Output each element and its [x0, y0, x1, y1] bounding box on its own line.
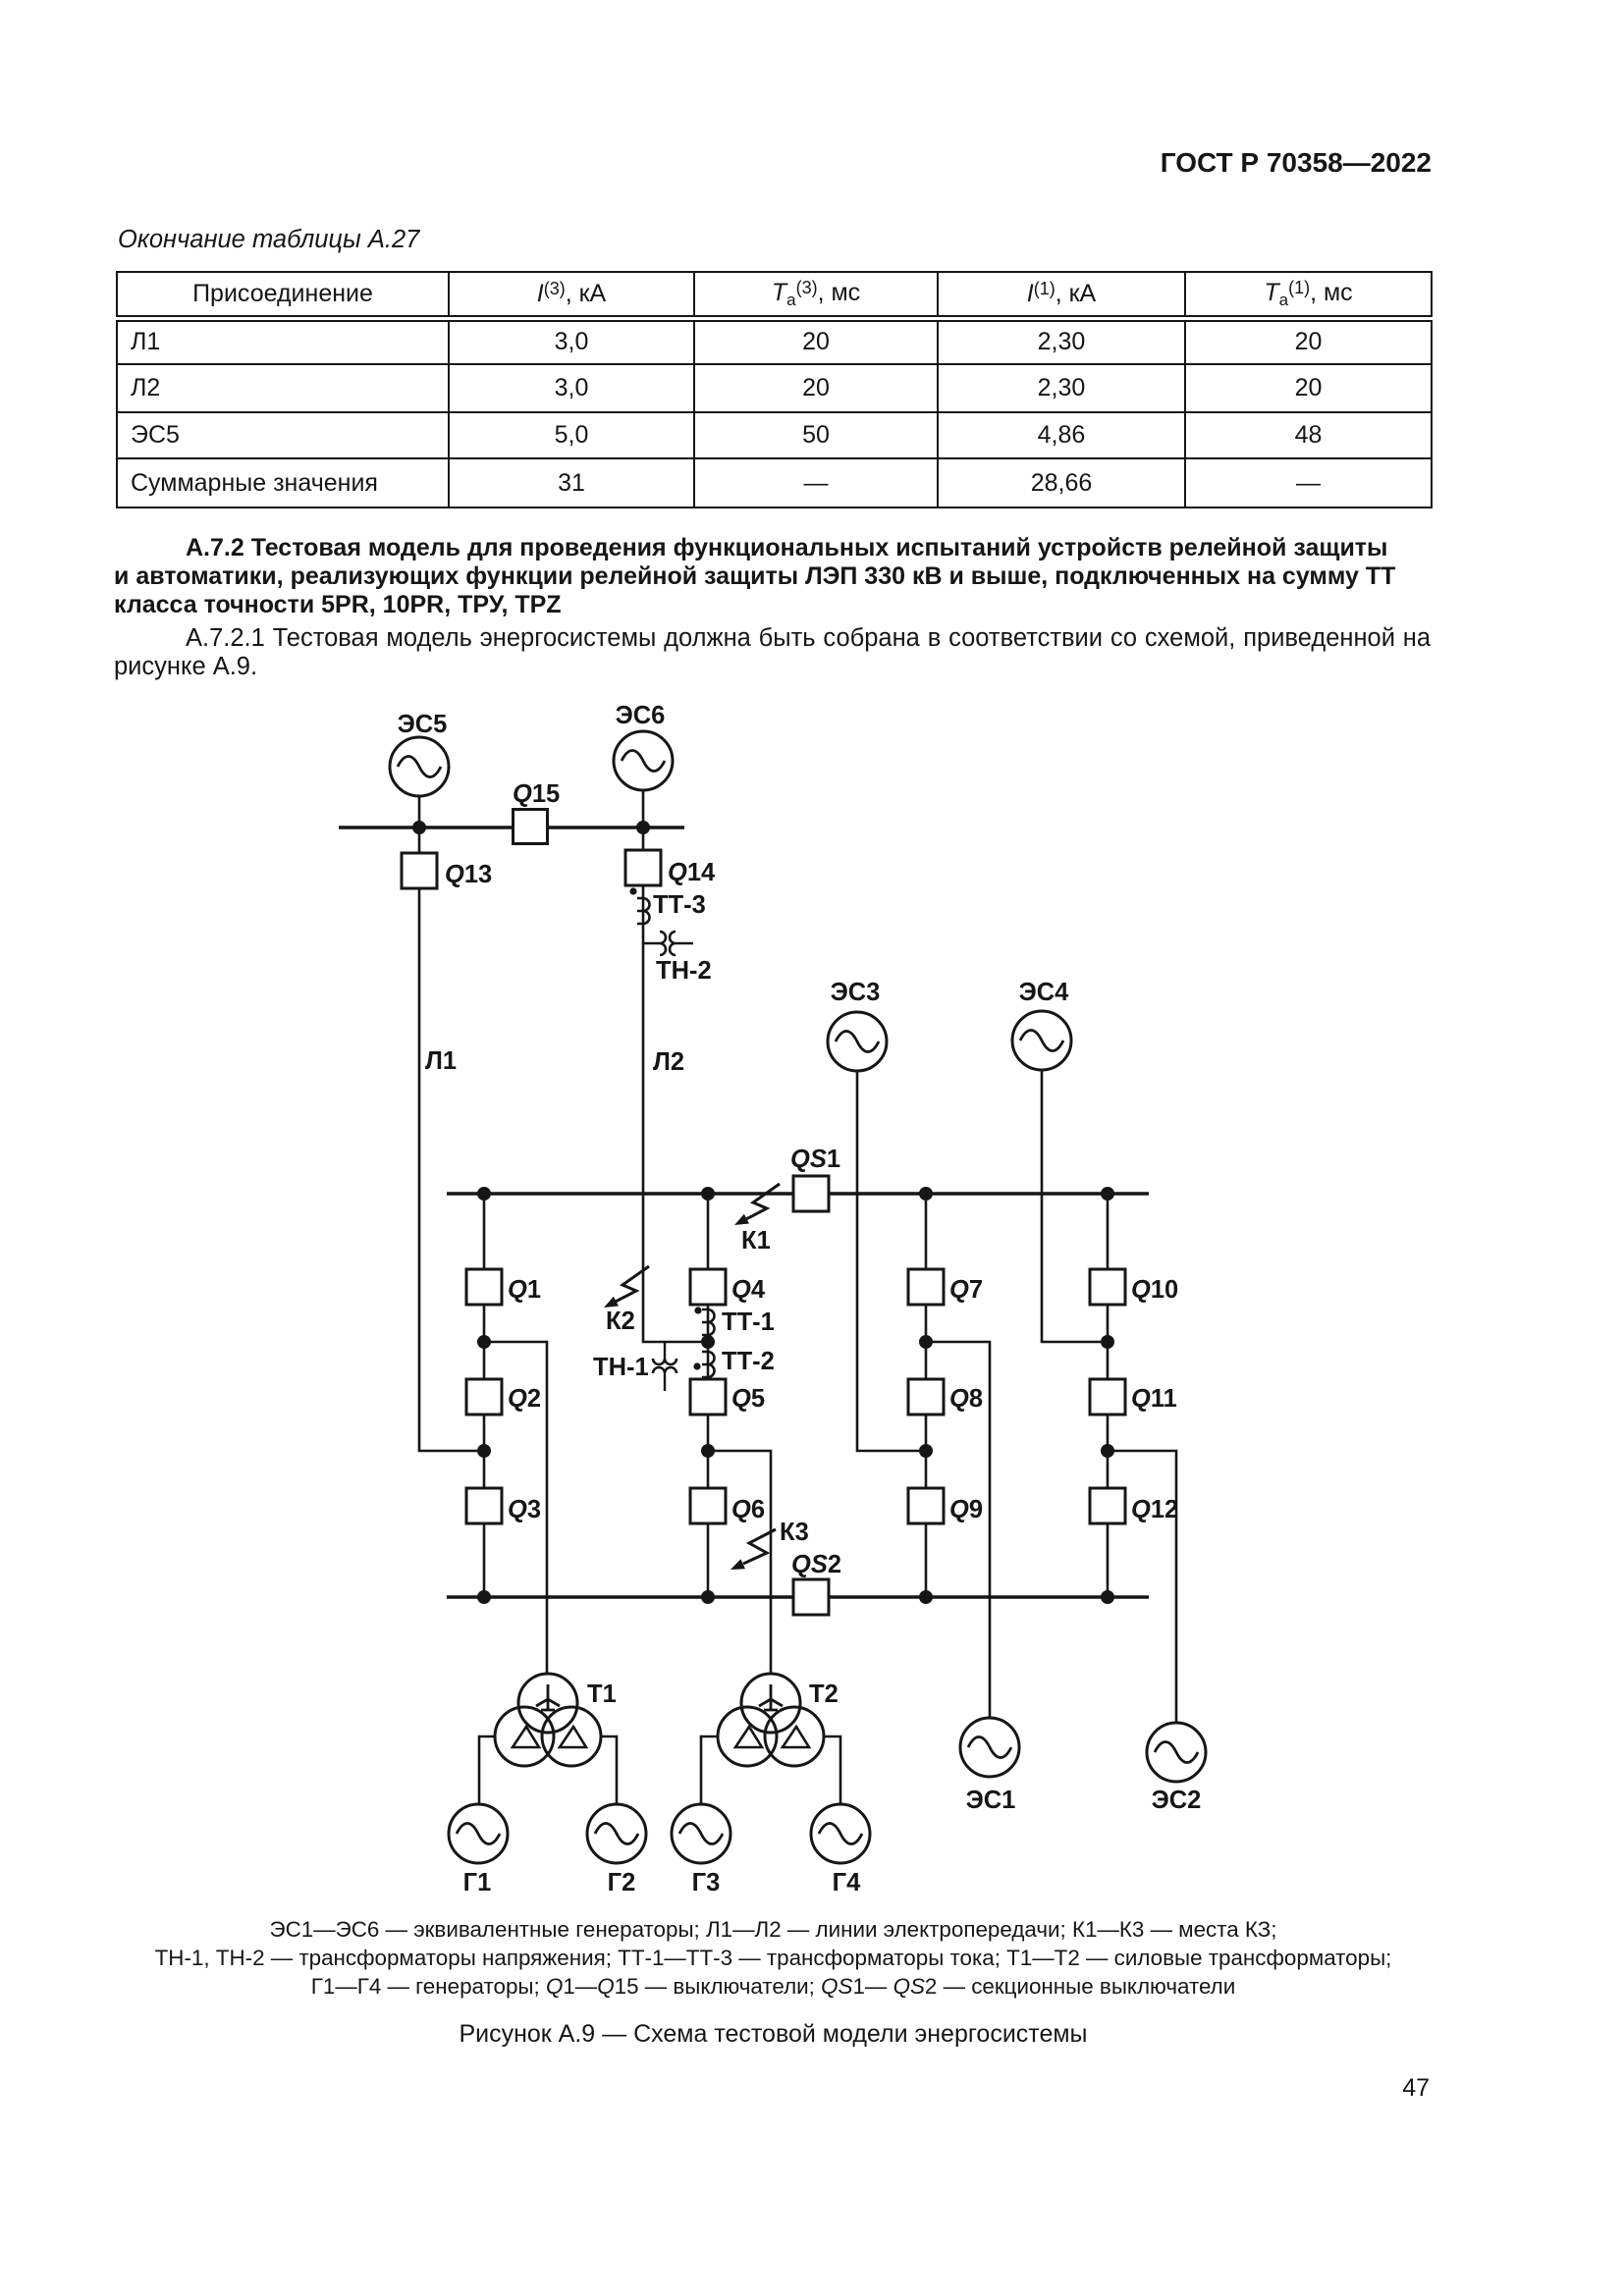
transformer Т2 (three-winding)	[718, 1674, 824, 1766]
breaker Q7	[908, 1269, 944, 1305]
junction Q10/bus1	[1101, 1187, 1114, 1201]
junction Q2/Q3 + Л1	[477, 1444, 491, 1458]
svg-text:Q5: Q5	[731, 1385, 765, 1413]
junction Q7/Q8 + ЭС1 branch	[919, 1335, 933, 1349]
wire T1 feeder branch	[484, 1342, 547, 1675]
wire feeder column x=493	[483, 1194, 486, 1597]
svg-text:Л2: Л2	[653, 1048, 684, 1076]
junction Q4/bus1	[701, 1187, 715, 1201]
fault К3	[731, 1529, 776, 1570]
breaker Q9	[908, 1488, 944, 1523]
breaker QS2	[793, 1579, 829, 1615]
svg-text:Q7: Q7	[949, 1276, 983, 1304]
svg-text:Т1: Т1	[587, 1681, 617, 1708]
svg-text:ТТ-2: ТТ-2	[722, 1348, 775, 1375]
svg-text:Л1: Л1	[425, 1047, 457, 1075]
svg-text:К3: К3	[780, 1519, 809, 1546]
current transformer ТТ-3	[629, 887, 649, 924]
wire T2 feeder branch	[708, 1451, 771, 1675]
wire Т1 left lead	[479, 1736, 495, 1804]
svg-text:Q11: Q11	[1131, 1385, 1177, 1413]
breaker Q2	[466, 1379, 502, 1415]
junction Q1/Q2 + T1 branch	[477, 1335, 491, 1349]
svg-text:ЭС3: ЭС3	[831, 979, 881, 1006]
breaker Q4	[690, 1269, 726, 1305]
svg-text:Q2: Q2	[508, 1385, 541, 1413]
svg-text:ТТ-1: ТТ-1	[722, 1308, 775, 1336]
svg-text:ТН-1: ТН-1	[593, 1354, 649, 1381]
breaker QS1	[793, 1176, 829, 1211]
junction ЭС5/bus	[412, 821, 426, 834]
svg-text:Q6: Q6	[731, 1496, 765, 1523]
junction ТТ-1/ТТ-2 + Л2	[701, 1335, 715, 1349]
bus 2 (lower section bus)	[447, 1595, 1149, 1599]
transformer Т1 (three-winding)	[495, 1674, 601, 1766]
svg-text:Q10: Q10	[1131, 1276, 1178, 1304]
generator ЭС4	[1012, 1011, 1071, 1070]
junction Q10/Q11 + ЭС4	[1101, 1335, 1114, 1349]
wire ЭС6 lead	[642, 790, 645, 850]
svg-text:К1: К1	[741, 1227, 771, 1255]
breaker Q1	[466, 1269, 502, 1305]
wire feeder column x=943	[925, 1194, 928, 1597]
generator Г4	[811, 1804, 870, 1863]
breaker Q14	[625, 850, 661, 885]
wire Т2 left lead	[701, 1736, 718, 1804]
junction Q7/bus1	[919, 1187, 933, 1201]
svg-text:Q14: Q14	[668, 859, 716, 886]
breaker Q8	[908, 1379, 944, 1415]
breaker Q10	[1090, 1269, 1125, 1305]
junction Q6/bus2	[701, 1590, 715, 1604]
generator ЭС5	[390, 737, 449, 796]
junction Q12/bus2	[1101, 1590, 1114, 1604]
breaker Q13	[402, 853, 437, 888]
svg-text:ЭС1: ЭС1	[966, 1787, 1016, 1814]
wire Т2 right lead	[824, 1736, 840, 1804]
breaker Q11	[1090, 1379, 1125, 1415]
generator ЭС2	[1147, 1723, 1206, 1782]
svg-text:ЭС6: ЭС6	[616, 702, 666, 729]
svg-text:ЭС4: ЭС4	[1019, 979, 1070, 1006]
junction Q3/bus2	[477, 1590, 491, 1604]
junction Q8/Q9 + ЭС3	[919, 1444, 933, 1458]
junction Q1/bus1	[477, 1187, 491, 1201]
svg-text:К2: К2	[606, 1308, 635, 1335]
current transformer ТТ-2	[693, 1352, 714, 1377]
wire feeder column x=721	[707, 1194, 710, 1597]
svg-text:Г2: Г2	[608, 1869, 636, 1896]
wire line Л2	[643, 885, 701, 1342]
svg-text:Q1: Q1	[508, 1276, 541, 1304]
svg-text:Г4: Г4	[833, 1869, 861, 1896]
fault К2	[604, 1266, 649, 1308]
voltage transformer ТН-1	[653, 1342, 677, 1391]
fault К1	[734, 1184, 780, 1225]
svg-text:Т2: Т2	[809, 1681, 839, 1708]
bus 1 (upper section bus)	[447, 1192, 1149, 1196]
generator ЭС6	[614, 731, 673, 790]
generator ЭС3	[828, 1012, 887, 1071]
breaker Q15	[514, 810, 548, 844]
voltage transformer ТН-2	[643, 932, 693, 955]
svg-text:ТТ-3: ТТ-3	[653, 891, 706, 919]
breaker Q6	[690, 1488, 726, 1523]
junction Q9/bus2	[919, 1590, 933, 1604]
svg-text:ЭС2: ЭС2	[1152, 1787, 1202, 1814]
wire ЭС1 feeder branch	[926, 1342, 990, 1718]
wire ЭС3 feeder	[857, 1071, 919, 1451]
svg-text:Q13: Q13	[445, 861, 492, 888]
junction Q11/Q12 + ЭС2 branch	[1101, 1444, 1114, 1458]
svg-text:Г3: Г3	[692, 1869, 721, 1896]
junction Q5/Q6 + T2 branch	[701, 1444, 715, 1458]
wire ЭС2 feeder branch	[1108, 1451, 1176, 1723]
wire ЭС5 lead	[418, 796, 421, 854]
wire line Л1	[419, 888, 477, 1451]
breaker Q5	[690, 1379, 726, 1415]
generator Г3	[672, 1804, 731, 1863]
wire ЭС4 feeder	[1042, 1070, 1101, 1342]
svg-text:Q4: Q4	[731, 1276, 766, 1304]
wire Т1 right lead	[601, 1736, 617, 1804]
svg-text:QS1: QS1	[790, 1146, 840, 1173]
breaker Q3	[466, 1488, 502, 1523]
breaker Q12	[1090, 1488, 1125, 1523]
svg-text:Q15: Q15	[513, 780, 560, 808]
generator ЭС1	[960, 1718, 1019, 1777]
svg-text:QS2: QS2	[791, 1551, 841, 1578]
svg-text:Г1: Г1	[463, 1869, 492, 1896]
junction ЭС6/bus	[636, 821, 650, 834]
bus top (ЭС5–ЭС6)	[339, 826, 684, 829]
svg-text:Q12: Q12	[1131, 1496, 1178, 1523]
generator Г2	[587, 1804, 646, 1863]
svg-text:Q8: Q8	[949, 1385, 983, 1413]
svg-text:ЭС5: ЭС5	[398, 711, 448, 738]
svg-text:ТН-2: ТН-2	[656, 957, 712, 985]
generator Г1	[449, 1804, 508, 1863]
svg-text:Q9: Q9	[949, 1496, 983, 1523]
current transformer ТТ-1	[694, 1307, 714, 1335]
svg-text:Q3: Q3	[508, 1496, 541, 1523]
wire feeder column x=1128	[1107, 1194, 1110, 1597]
